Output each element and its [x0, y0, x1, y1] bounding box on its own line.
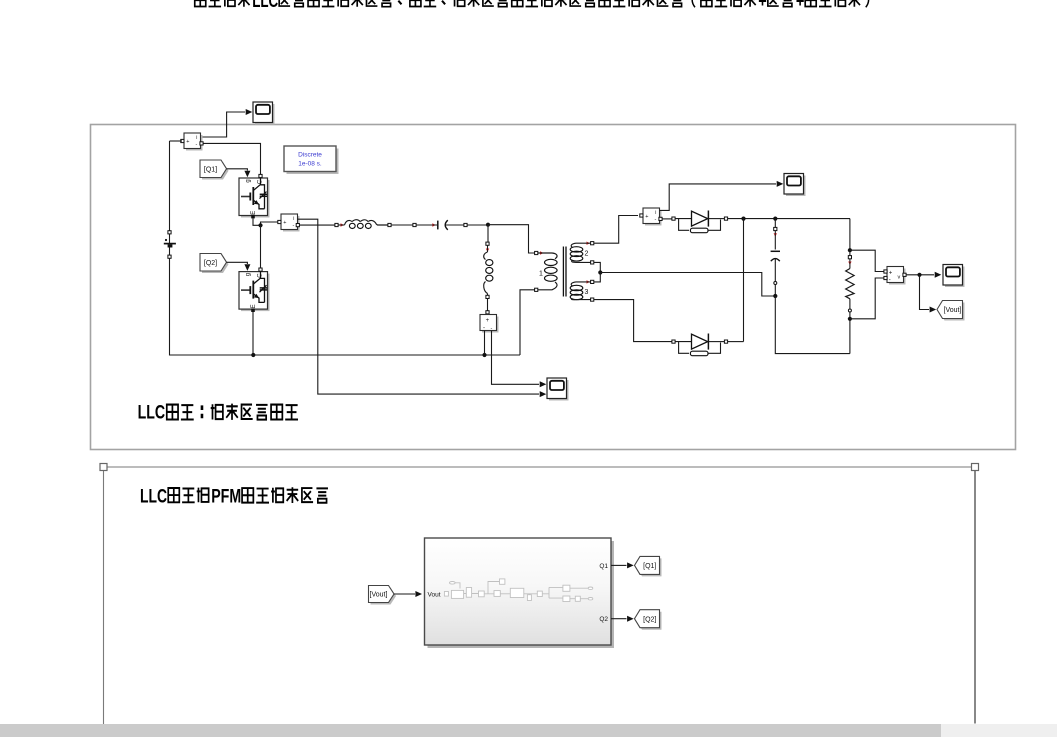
transformer T1 core: [562, 247, 564, 297]
node midpoint junction: [258, 223, 262, 227]
title text (clipped): [195, 0, 869, 11]
transformer T1 winding 1 (primary): [535, 251, 538, 254]
wire winding2 to CM3: [594, 216, 638, 244]
capacitor Cr (series resonant): [413, 223, 416, 226]
wire VM2 minus to rail: [484, 331, 486, 356]
svg-text:+: +: [889, 270, 893, 276]
svg-text:[Vout]: [Vout]: [944, 307, 962, 314]
scope Scope2 (vLm and iLr): [549, 380, 569, 401]
svg-text:g: g: [246, 179, 252, 182]
wire load to VM3 minus: [850, 278, 884, 319]
scope Scope4 (Vout): [945, 267, 965, 288]
subsystem frame box2 (selected): [104, 466, 976, 468]
selection handle top-right: [972, 464, 979, 471]
node A junction (to Lm and transformer): [486, 223, 490, 227]
wire Q1 gate signal: [227, 169, 248, 171]
subsystem frame box1: [91, 125, 1016, 450]
current measurement CM1: [186, 135, 203, 151]
svg-text:[Q2]: [Q2]: [643, 616, 656, 623]
svg-text:-: -: [293, 223, 295, 229]
wire Lr to Cr: [391, 224, 413, 226]
wire CM1 signal to Scope1: [201, 112, 246, 137]
capacitor Cout (output filter): [773, 217, 777, 221]
wire IGBT2 emitter to rail: [252, 312, 254, 355]
svg-text:i: i: [196, 135, 197, 141]
svg-text:+: +: [283, 220, 286, 226]
wire winding3 to diode D2: [594, 300, 672, 342]
node rectifier output junction: [741, 217, 745, 221]
resistor Rload: [849, 219, 851, 251]
wire CM2 signal to Scope2: [298, 219, 540, 394]
wire VM2 signal to Scope2: [492, 331, 540, 385]
wire Vout to controller subsystem: [394, 593, 415, 595]
wire transformer center tap: [594, 262, 601, 272]
wire CM3 to diode D1: [660, 218, 673, 220]
wire CM3 signal to Scope3: [660, 184, 777, 211]
DC voltage source Vdc: [169, 141, 171, 231]
svg-text:E: E: [251, 304, 257, 308]
wire midpoint to IGBT2 collector: [260, 225, 262, 268]
wire CM1 to IGBT1 collector: [201, 143, 261, 174]
current measurement CM2 (resonant current): [283, 216, 300, 232]
wire rail up to transformer primary bottom: [520, 290, 535, 355]
current measurement CM3 (rectifier current): [645, 210, 662, 226]
subsystem controller block: [428, 541, 615, 648]
wire DC+ rail to CM1: [170, 140, 183, 142]
svg-text:3: 3: [585, 289, 589, 296]
wire CM2 to resonant inductor: [298, 224, 336, 226]
wire Q1 output: [611, 564, 627, 566]
node capacitor bottom junction: [773, 294, 777, 298]
svg-text:+: +: [645, 214, 648, 220]
subsystem miniature diagram: [444, 579, 592, 602]
voltage measurement VM3 (output voltage): [889, 269, 906, 285]
svg-text:[Vout]: [Vout]: [370, 592, 388, 599]
scope Scope1 (input current): [255, 104, 275, 125]
svg-text:+: +: [796, 0, 805, 11]
transistor IGBT1: [241, 180, 270, 218]
svg-text:+: +: [758, 0, 767, 11]
wire D2 cathode to output node: [728, 341, 744, 343]
svg-text:LLC: LLC: [140, 486, 167, 507]
svg-text:C: C: [258, 179, 264, 184]
svg-text:-: -: [655, 217, 657, 223]
svg-text:Q2: Q2: [599, 616, 608, 623]
svg-text:+: +: [486, 318, 490, 324]
svg-text:i: i: [655, 210, 656, 216]
From tag Q1: [202, 162, 229, 180]
wire VM3 to Scope4: [906, 274, 934, 276]
svg-text:+: +: [186, 139, 189, 145]
Goto tag Q2: [637, 612, 662, 630]
svg-text:1e-08 s.: 1e-08 s.: [298, 161, 322, 168]
svg-text:Q1: Q1: [599, 563, 608, 570]
diode D1 with snubber: [672, 217, 675, 220]
transformer T1 winding 2 (secondary top): [591, 242, 594, 245]
svg-text:i: i: [293, 216, 294, 222]
wire node A to transformer primary: [488, 225, 535, 253]
svg-text:-: -: [491, 325, 493, 331]
wire Cr to node A: [467, 224, 488, 226]
inductor Lr (series resonant): [335, 223, 338, 226]
scope Scope3 (diode current): [786, 176, 806, 197]
svg-text:[Q1]: [Q1]: [643, 563, 656, 570]
svg-text:[Q1]: [Q1]: [204, 166, 217, 173]
From tag Q2: [202, 256, 229, 274]
svg-text:2: 2: [585, 251, 589, 258]
inductor Lm (magnetizing): [487, 225, 489, 242]
Goto tag Vout: [939, 303, 965, 321]
svg-text:1: 1: [539, 271, 543, 278]
status bar: [0, 724, 941, 737]
From tag Vout: [371, 588, 397, 605]
diode D2 with snubber: [672, 340, 675, 343]
wire output node down to D2: [743, 219, 745, 342]
Goto tag Q1: [637, 558, 662, 576]
wire load to VM3 plus: [850, 250, 884, 271]
wire IGBT1 emitter to midpoint node: [253, 219, 279, 226]
svg-text:C: C: [258, 273, 264, 278]
selection handle top-left: [100, 464, 107, 471]
svg-text:LLC: LLC: [252, 0, 278, 11]
wire VM3 to Goto Vout: [920, 275, 930, 310]
transistor IGBT2: [241, 274, 270, 312]
wire DC- to ground rail: [170, 258, 521, 355]
svg-text:-: -: [483, 325, 485, 331]
svg-text:g: g: [246, 273, 252, 276]
svg-text:PFM: PFM: [211, 486, 241, 507]
wire Lm to VM2: [487, 299, 489, 312]
powergui block Discrete: [287, 149, 339, 175]
svg-text:v: v: [898, 275, 901, 281]
svg-text:-: -: [889, 277, 891, 283]
wire D1 cathode to output node: [728, 218, 850, 220]
svg-text:E: E: [251, 211, 257, 215]
svg-text:Vout: Vout: [428, 592, 441, 599]
wire cap bottom to output rail: [775, 296, 850, 354]
wire Q2 gate signal: [227, 262, 248, 264]
wire Q2 output: [611, 618, 627, 620]
transformer T1 winding 3 (secondary bottom): [591, 280, 594, 283]
svg-text:-: -: [196, 142, 198, 148]
svg-text:[Q2]: [Q2]: [204, 260, 217, 267]
voltage measurement VM2 (Lm voltage): [482, 317, 499, 333]
svg-text:Discrete: Discrete: [298, 152, 322, 159]
svg-text:LLC: LLC: [138, 403, 166, 424]
